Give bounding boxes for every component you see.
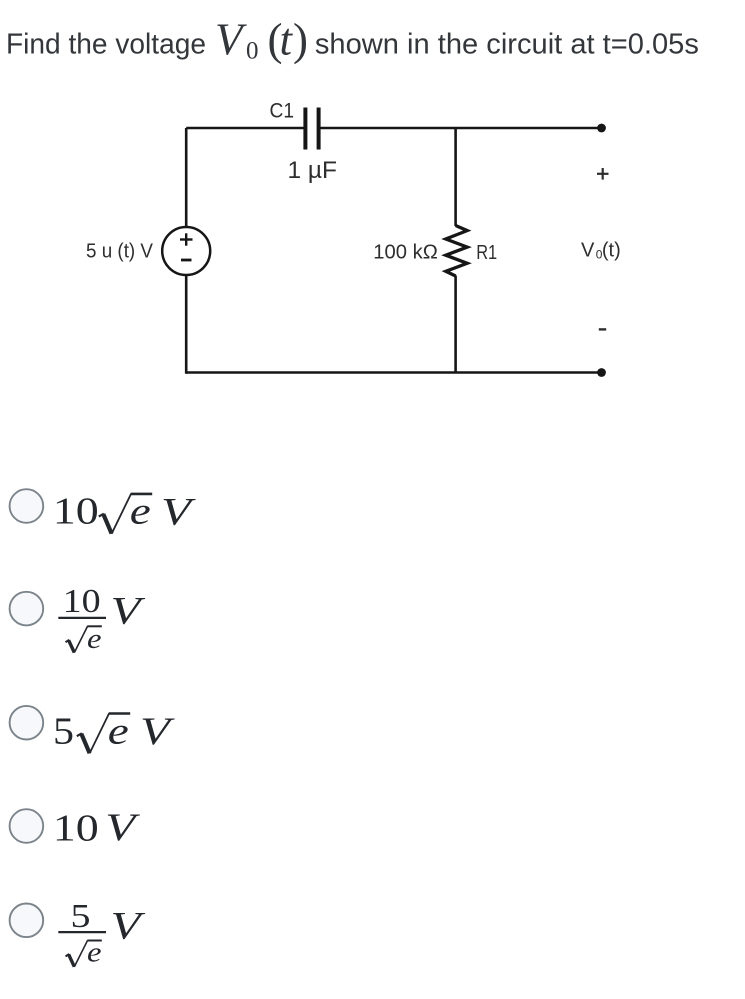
svg-text:Find the voltage: Find the voltage	[6, 29, 206, 61]
option C math: 5 sqrt(e) V	[53, 710, 175, 753]
option B math: 10 over sqrt(e), V	[58, 583, 145, 655]
wire resistor upper lead	[454, 128, 457, 226]
svg-text:V: V	[581, 240, 595, 262]
bottom wire	[186, 371, 601, 374]
svg-text:V: V	[140, 710, 175, 753]
option D radio	[10, 809, 44, 843]
svg-text:t: t	[280, 14, 294, 64]
output minus sign	[599, 328, 606, 330]
svg-text:5: 5	[71, 898, 91, 935]
option E radio	[10, 904, 44, 938]
svg-text:10: 10	[63, 583, 101, 620]
node terminal top dot	[597, 124, 606, 133]
svg-text:C1: C1	[270, 100, 295, 123]
svg-text:10: 10	[53, 807, 99, 849]
option A math: 10 sqrt(e) V	[53, 490, 196, 533]
svg-text:e: e	[108, 710, 129, 752]
plus terminal mark	[180, 233, 193, 245]
wire left upper: source to top wire	[185, 128, 188, 228]
output plus sign	[597, 168, 609, 180]
option A radio	[10, 489, 44, 523]
resistor R1 zigzag	[446, 226, 467, 277]
svg-text:5: 5	[53, 710, 74, 752]
svg-text:): )	[293, 14, 308, 64]
node terminal bottom dot	[597, 368, 606, 377]
wire top-right: capacitor right plate to output node	[321, 127, 602, 130]
svg-text:e: e	[87, 937, 102, 969]
svg-text:0: 0	[246, 38, 259, 65]
wire left lower: source to bottom wire	[185, 275, 188, 374]
svg-text:R1: R1	[476, 242, 497, 264]
svg-text:shown in the circuit at t=0.05: shown in the circuit at t=0.05s	[315, 29, 699, 61]
wire resistor lower lead	[454, 276, 457, 374]
svg-text:V: V	[111, 905, 146, 948]
minus terminal mark	[181, 259, 192, 262]
svg-text:V: V	[161, 490, 196, 533]
svg-text:V: V	[111, 590, 146, 633]
label Vo(t)	[581, 240, 621, 262]
option C radio	[10, 706, 44, 740]
svg-text:e: e	[87, 623, 102, 655]
voltage source V1	[162, 227, 210, 275]
svg-text:V: V	[105, 806, 140, 849]
svg-text:10: 10	[53, 491, 99, 533]
option E math: 5 over sqrt(e), V	[58, 898, 145, 969]
svg-text:100 kΩ: 100 kΩ	[373, 241, 438, 263]
svg-text:(t): (t)	[602, 240, 621, 262]
svg-text:1 µF: 1 µF	[288, 157, 338, 184]
option D math: 10 V	[53, 806, 141, 849]
option B radio	[10, 592, 44, 626]
capacitor C1	[305, 108, 318, 150]
svg-text:e: e	[130, 491, 151, 533]
svg-text:5 u (t) V: 5 u (t) V	[86, 239, 153, 262]
question title	[6, 14, 699, 64]
wire top-left: capacitor left lead	[186, 127, 303, 130]
svg-text:V: V	[215, 14, 247, 64]
